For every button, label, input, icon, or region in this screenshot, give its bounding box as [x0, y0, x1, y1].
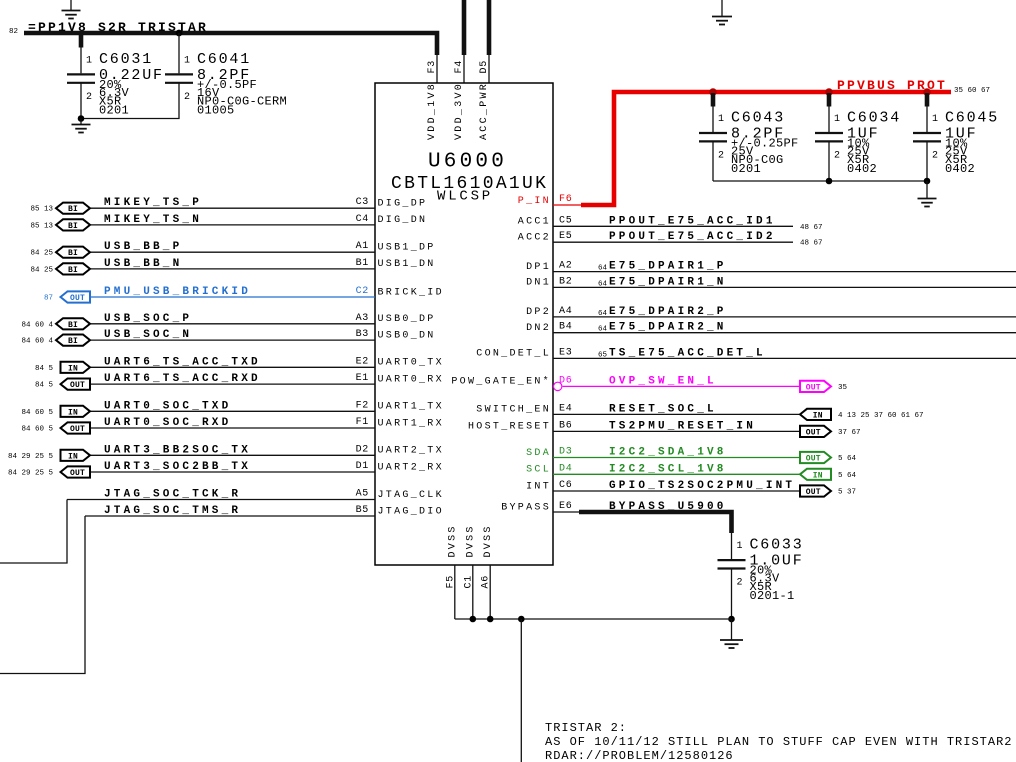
wire C6043 top [712, 105, 714, 133]
node PMU_USB_BRICKID (pin C2) [44, 286, 444, 303]
port arrow USB_SOC_N [56, 335, 90, 347]
capacitor C6045 [913, 110, 999, 177]
svg-text:1: 1 [86, 55, 93, 66]
svg-text:37 67: 37 67 [838, 429, 861, 437]
svg-text:C2: C2 [356, 286, 369, 297]
port arrow USB_SOC_P [56, 318, 90, 330]
svg-text:UART6_TS_ACC_TXD: UART6_TS_ACC_TXD [104, 356, 261, 368]
svg-text:1: 1 [932, 114, 939, 125]
port arrow GPIO_TS2SOC2PMU_INT [800, 485, 831, 497]
capacitor C6034 stub (thick) [827, 93, 832, 107]
svg-text:1: 1 [737, 541, 744, 552]
svg-text:SDA: SDA [526, 448, 551, 459]
node UART6_TS_ACC_RXD (pin E1) [35, 373, 444, 390]
IC U6000 (CBTL1610A1UK) [375, 83, 553, 565]
svg-text:F2: F2 [356, 400, 369, 411]
svg-text:E75_DPAIR2_N: E75_DPAIR2_N [609, 322, 727, 334]
svg-text:1: 1 [718, 114, 725, 125]
svg-text:U6000: U6000 [428, 151, 507, 174]
capacitor C6043 stub (thick) [711, 93, 716, 107]
svg-text:64: 64 [598, 310, 608, 318]
svg-text:D3: D3 [559, 447, 572, 458]
junction C1 ground [470, 616, 477, 623]
svg-text:UART1_RX: UART1_RX [378, 418, 444, 429]
svg-text:USB1_DN: USB1_DN [378, 259, 436, 270]
wire C6045 bottom [926, 141, 928, 181]
svg-text:C5: C5 [559, 215, 572, 226]
svg-text:BI: BI [68, 266, 78, 275]
svg-text:IN: IN [68, 364, 78, 373]
svg-text:0402: 0402 [847, 162, 877, 176]
node USB_BB_N (pin B1) [30, 258, 435, 275]
svg-text:OUT: OUT [70, 294, 85, 303]
svg-text:84 60 4: 84 60 4 [21, 338, 53, 346]
svg-text:DVSS: DVSS [448, 524, 459, 557]
svg-text:UART2_TX: UART2_TX [378, 446, 444, 457]
svg-text:MIKEY_TS_N: MIKEY_TS_N [104, 214, 202, 226]
wire ground to off-page bottom [520, 619, 522, 762]
svg-text:64: 64 [598, 280, 608, 288]
port arrow I2C2_SDA_1V8 [800, 452, 831, 464]
svg-text:A6: A6 [481, 575, 492, 588]
svg-text:A5: A5 [356, 489, 369, 500]
svg-text:84 5: 84 5 [35, 382, 54, 390]
svg-text:C4: C4 [356, 214, 369, 225]
ground (top left) [62, 0, 81, 19]
svg-text:BI: BI [68, 249, 78, 258]
junction off-page ground [518, 616, 525, 623]
svg-text:USB_BB_P: USB_BB_P [104, 241, 182, 253]
svg-text:2: 2 [86, 92, 93, 103]
node USB_SOC_N (pin B3) [21, 329, 435, 346]
svg-text:IN: IN [68, 408, 78, 417]
node PPOUT_E75_ACC_ID1 (pin C5) [518, 215, 823, 232]
pin F5 stub [454, 565, 456, 619]
svg-text:CON_DET_L: CON_DET_L [476, 349, 551, 360]
svg-text:VDD_3V0: VDD_3V0 [454, 82, 465, 140]
svg-text:A2: A2 [559, 261, 572, 272]
node BYPASS_U5900 (pin E6) [501, 501, 726, 513]
svg-text:INT: INT [526, 481, 551, 492]
svg-text:USB0_DP: USB0_DP [378, 314, 436, 325]
svg-text:RDAR://PROBLEM/12580126: RDAR://PROBLEM/12580126 [545, 749, 734, 762]
svg-text:DN1: DN1 [526, 278, 551, 289]
svg-text:ACC2: ACC2 [518, 233, 551, 244]
svg-text:01005: 01005 [197, 103, 235, 117]
svg-text:E1: E1 [356, 373, 369, 384]
svg-text:F3: F3 [427, 60, 438, 73]
svg-text:BI: BI [68, 222, 78, 231]
svg-text:E6: E6 [559, 501, 572, 512]
port arrow TS2PMU_RESET_IN [800, 426, 831, 438]
svg-text:MIKEY_TS_P: MIKEY_TS_P [104, 197, 202, 209]
svg-text:DN2: DN2 [526, 323, 551, 334]
wire JTAG_SOC_TMS_R to left edge [0, 516, 85, 674]
svg-text:D5: D5 [479, 60, 490, 73]
port arrow OVP_SW_EN_L [800, 381, 831, 393]
svg-text:1: 1 [184, 55, 191, 66]
capacitor C6043 [699, 110, 799, 177]
wire C6031 top [80, 46, 82, 73]
svg-text:E5: E5 [559, 231, 572, 242]
junction C6033 ground [728, 616, 735, 623]
svg-text:A4: A4 [559, 306, 572, 317]
svg-text:OUT: OUT [806, 428, 821, 437]
port arrow UART0_SOC_TXD [61, 406, 91, 418]
node TS_E75_ACC_DET_L (pin E3) [476, 347, 1016, 359]
svg-text:C6: C6 [559, 480, 572, 491]
node I2C2_SDA_1V8 (pin D3) [526, 447, 856, 464]
svg-text:A3: A3 [356, 313, 369, 324]
node I2C2_SCL_1V8 (pin D4) [526, 463, 856, 480]
svg-text:2: 2 [834, 151, 841, 162]
svg-text:85 13: 85 13 [30, 222, 53, 230]
net label PPVBUS_PROT [837, 78, 990, 95]
svg-text:OUT: OUT [806, 383, 821, 392]
svg-text:OUT: OUT [70, 425, 85, 434]
svg-text:JTAG_SOC_TCK_R: JTAG_SOC_TCK_R [104, 489, 241, 501]
svg-text:B2: B2 [559, 276, 572, 287]
svg-text:D2: D2 [356, 444, 369, 455]
node UART0_SOC_RXD (pin F1) [21, 417, 443, 434]
junction on PPVBUS at C6045 [923, 88, 931, 96]
node UART3_BB2SOC_TX (pin D2) [8, 444, 444, 461]
svg-text:84 60 4: 84 60 4 [21, 321, 53, 329]
svg-text:WLCSP: WLCSP [437, 189, 493, 205]
svg-text:UART3_BB2SOC_TX: UART3_BB2SOC_TX [104, 444, 251, 456]
svg-text:64: 64 [598, 265, 608, 273]
node MIKEY_TS_P (pin C3) [30, 197, 427, 214]
port arrow MIKEY_TS_P [56, 203, 90, 215]
svg-text:B4: B4 [559, 322, 572, 333]
svg-text:F1: F1 [356, 417, 369, 428]
svg-text:35: 35 [838, 384, 848, 392]
node E75_DPAIR2_P (pin A4) [526, 306, 1016, 318]
pin D5 stub [488, 50, 490, 84]
wire caps ground bus [713, 180, 927, 182]
svg-text:DIG_DP: DIG_DP [378, 199, 428, 210]
svg-text:84 5: 84 5 [35, 365, 54, 373]
junction at C6031/C6041 ground node [78, 115, 85, 122]
wire JTAG_SOC_TCK_R to left edge [0, 500, 67, 564]
svg-text:84 25: 84 25 [30, 250, 53, 258]
node UART0_SOC_TXD (pin F2) [21, 400, 443, 417]
svg-text:2: 2 [718, 151, 725, 162]
port arrow UART3_SOC2BB_TX [61, 466, 91, 478]
port arrow UART6_TS_ACC_RXD [61, 379, 91, 391]
svg-text:SWITCH_EN: SWITCH_EN [476, 405, 551, 416]
svg-text:82: 82 [9, 28, 18, 36]
wire VDD_3V0 (thick, off-page top) [462, 0, 467, 55]
svg-text:PPOUT_E75_ACC_ID2: PPOUT_E75_ACC_ID2 [609, 231, 776, 243]
ground (below PPVBUS caps) [918, 181, 937, 207]
svg-text:84 60 5: 84 60 5 [21, 426, 53, 434]
capacitor C6045 stub (thick) [925, 93, 930, 107]
svg-text:0402: 0402 [945, 162, 975, 176]
capacitor C6034 [815, 110, 901, 177]
node E75_DPAIR1_P (pin A2) [526, 261, 1016, 273]
wire C6034 top [828, 105, 830, 133]
svg-text:2: 2 [932, 151, 939, 162]
node E75_DPAIR2_N (pin B4) [526, 322, 1016, 334]
node PPOUT_E75_ACC_ID2 (pin E5) [518, 231, 823, 248]
wire PP1V8 bus (thick) [24, 33, 437, 55]
svg-text:C6031: C6031 [99, 51, 153, 68]
svg-text:E2: E2 [356, 356, 369, 367]
junction C6045 ground [924, 178, 931, 185]
node JTAG_SOC_TCK_R (pin A5) [67, 489, 444, 501]
pin A6 stub [489, 565, 491, 619]
wire ACC_PWR (thick, off-page top) [487, 0, 492, 55]
junction A6 ground [487, 616, 494, 623]
svg-text:BRICK_ID: BRICK_ID [378, 287, 444, 298]
port arrow UART3_BB2SOC_TX [61, 450, 91, 462]
junction on PP1V8 bus at C6041 branch [176, 30, 183, 37]
svg-text:1: 1 [834, 114, 841, 125]
svg-text:DP1: DP1 [526, 262, 551, 273]
wire BYPASS_U5900 (thick) [579, 512, 732, 533]
svg-text:DIG_DN: DIG_DN [378, 215, 428, 226]
svg-text:UART0_TX: UART0_TX [378, 358, 444, 369]
svg-text:UART0_SOC_RXD: UART0_SOC_RXD [104, 417, 231, 429]
svg-text:BI: BI [68, 321, 78, 330]
svg-text:IN: IN [813, 411, 823, 420]
wire C6041 bottom to ground node [81, 83, 179, 119]
svg-text:A1: A1 [356, 241, 369, 252]
svg-text:OVP_SW_EN_L: OVP_SW_EN_L [609, 375, 717, 387]
node OVP_SW_EN_L (pin D6, magenta) [451, 375, 847, 392]
svg-text:TS_E75_ACC_DET_L: TS_E75_ACC_DET_L [609, 347, 766, 359]
node USB_SOC_P (pin A3) [21, 313, 435, 330]
port arrow USB_BB_P [56, 247, 90, 259]
svg-text:4 13 25 37 60 61 67: 4 13 25 37 60 61 67 [838, 412, 924, 420]
note TRISTAR 2 [545, 721, 1012, 762]
svg-text:84 60 5: 84 60 5 [21, 409, 53, 417]
svg-text:5 37: 5 37 [838, 489, 856, 497]
svg-text:ACC1: ACC1 [518, 217, 551, 228]
wire C6041 branch [178, 33, 180, 73]
node TS2PMU_RESET_IN (pin B6) [468, 420, 861, 437]
svg-text:USB_BB_N: USB_BB_N [104, 258, 182, 270]
svg-text:F5: F5 [445, 575, 456, 588]
svg-text:USB_SOC_N: USB_SOC_N [104, 329, 192, 341]
svg-text:B6: B6 [559, 420, 572, 431]
svg-text:JTAG_DIO: JTAG_DIO [378, 506, 444, 517]
svg-text:DVSS: DVSS [466, 524, 477, 557]
svg-text:UART3_SOC2BB_TX: UART3_SOC2BB_TX [104, 461, 251, 473]
svg-text:35 60 67: 35 60 67 [954, 87, 990, 95]
svg-text:IN: IN [813, 471, 823, 480]
svg-text:2: 2 [737, 578, 744, 589]
svg-text:0201: 0201 [99, 103, 129, 117]
svg-text:UART0_RX: UART0_RX [378, 374, 444, 385]
svg-text:D6: D6 [559, 375, 572, 386]
svg-text:BI: BI [68, 205, 78, 214]
wire C6034 bottom [828, 141, 830, 181]
svg-text:48 67: 48 67 [800, 224, 823, 232]
svg-text:DVSS: DVSS [483, 524, 494, 557]
wire PPVBUS_PROT (thick red) [581, 92, 951, 205]
svg-text:AS OF 10/11/12 STILL PLAN TO S: AS OF 10/11/12 STILL PLAN TO STUFF CAP E… [545, 735, 1012, 749]
node USB_BB_P (pin A1) [30, 241, 435, 258]
svg-text:DP2: DP2 [526, 307, 551, 318]
svg-text:C6033: C6033 [750, 537, 804, 554]
svg-text:5 64: 5 64 [838, 472, 857, 480]
svg-text:0201: 0201 [731, 162, 761, 176]
pin F4 stub [463, 50, 465, 84]
svg-text:F6: F6 [559, 194, 572, 205]
svg-text:D1: D1 [356, 461, 369, 472]
svg-text:USB1_DP: USB1_DP [378, 243, 436, 254]
svg-text:E4: E4 [559, 403, 572, 414]
svg-text:I2C2_SDA_1V8: I2C2_SDA_1V8 [609, 447, 727, 459]
wire C6031 bottom [80, 83, 82, 119]
junction on PPVBUS at C6043 [709, 88, 717, 96]
node GPIO_TS2SOC2PMU_INT (pin C6) [526, 480, 856, 497]
svg-text:OUT: OUT [70, 469, 85, 478]
svg-text:F4: F4 [454, 60, 465, 73]
svg-text:C6045: C6045 [945, 110, 999, 127]
port arrow PMU_USB_BRICKID [61, 291, 91, 303]
svg-text:E75_DPAIR2_P: E75_DPAIR2_P [609, 306, 727, 318]
svg-text:HOST_RESET: HOST_RESET [468, 422, 551, 433]
svg-text:2: 2 [184, 92, 191, 103]
svg-text:POW_GATE_EN*: POW_GATE_EN* [451, 376, 551, 388]
svg-text:5 64: 5 64 [838, 455, 857, 463]
capacitor C6031 stub (thick) [79, 33, 84, 48]
svg-text:GPIO_TS2SOC2PMU_INT: GPIO_TS2SOC2PMU_INT [609, 480, 795, 492]
svg-text:D4: D4 [559, 463, 572, 474]
wire C6043 bottom [712, 141, 714, 181]
svg-text:PPOUT_E75_ACC_ID1: PPOUT_E75_ACC_ID1 [609, 215, 776, 227]
svg-text:ACC_PWR: ACC_PWR [479, 82, 490, 140]
svg-text:E75_DPAIR1_N: E75_DPAIR1_N [609, 276, 727, 288]
svg-text:84 25: 84 25 [30, 266, 53, 274]
ground (top middle) [712, 0, 732, 25]
svg-text:TRISTAR 2:: TRISTAR 2: [545, 721, 627, 735]
node MIKEY_TS_N (pin C4) [30, 214, 427, 231]
svg-text:OUT: OUT [806, 455, 821, 464]
svg-text:C3: C3 [356, 197, 369, 208]
svg-text:C6034: C6034 [847, 110, 901, 127]
svg-text:B5: B5 [356, 505, 369, 516]
svg-text:87: 87 [44, 295, 53, 303]
pin C1 stub [472, 565, 474, 619]
svg-text:IN: IN [68, 452, 78, 461]
svg-text:C1: C1 [463, 575, 474, 588]
svg-text:84 29 25 5: 84 29 25 5 [8, 453, 54, 461]
port arrow RESET_SOC_L [800, 409, 831, 421]
svg-text:JTAG_SOC_TMS_R: JTAG_SOC_TMS_R [104, 505, 241, 517]
svg-text:BYPASS: BYPASS [501, 502, 551, 513]
node E75_DPAIR1_N (pin B2) [526, 276, 1016, 288]
capacitor C6041 [165, 51, 287, 118]
port arrow MIKEY_TS_N [56, 219, 90, 231]
junction C6034 ground [826, 178, 833, 185]
svg-text:85 13: 85 13 [30, 206, 53, 214]
junction on PPVBUS at C6034 [825, 88, 833, 96]
svg-text:UART1_TX: UART1_TX [378, 402, 444, 413]
svg-text:C6041: C6041 [197, 51, 251, 68]
wire C6045 top [926, 105, 928, 133]
node UART3_SOC2BB_TX (pin D1) [8, 461, 444, 478]
svg-text:BI: BI [68, 337, 78, 346]
svg-text:P_IN: P_IN [518, 196, 551, 207]
svg-text:0201-1: 0201-1 [750, 589, 795, 603]
svg-text:UART2_RX: UART2_RX [378, 462, 444, 473]
svg-text:TS2PMU_RESET_IN: TS2PMU_RESET_IN [609, 420, 756, 432]
ground (below C6031) [72, 119, 91, 133]
svg-text:UART0_SOC_TXD: UART0_SOC_TXD [104, 400, 231, 412]
svg-text:USB0_DN: USB0_DN [378, 330, 436, 341]
svg-text:RESET_SOC_L: RESET_SOC_L [609, 403, 717, 415]
pin F3 stub [436, 50, 438, 84]
port arrow I2C2_SCL_1V8 [800, 469, 831, 481]
svg-text:65: 65 [598, 351, 608, 359]
svg-text:C6043: C6043 [731, 110, 785, 127]
svg-text:B1: B1 [356, 258, 369, 269]
svg-text:OUT: OUT [70, 381, 85, 390]
svg-text:84 29 25 5: 84 29 25 5 [8, 470, 54, 478]
svg-text:I2C2_SCL_1V8: I2C2_SCL_1V8 [609, 463, 727, 475]
wire C6033 bottom [731, 569, 733, 620]
node RESET_SOC_L (pin E4) [476, 403, 923, 420]
port arrow UART6_TS_ACC_TXD [61, 362, 91, 374]
svg-text:JTAG_CLK: JTAG_CLK [378, 490, 444, 501]
svg-text:OUT: OUT [806, 488, 821, 497]
port arrow UART0_SOC_RXD [61, 422, 91, 434]
svg-text:64: 64 [598, 326, 608, 334]
port arrow USB_BB_N [56, 263, 90, 275]
pin P_IN F6 (red) [518, 194, 581, 207]
node JTAG_SOC_TMS_R (pin B5) [85, 505, 444, 517]
svg-text:USB_SOC_P: USB_SOC_P [104, 313, 192, 325]
svg-text:48 67: 48 67 [800, 240, 823, 248]
svg-text:VDD_1V8: VDD_1V8 [427, 82, 438, 140]
node UART6_TS_ACC_TXD (pin E2) [35, 356, 444, 373]
svg-text:SCL: SCL [526, 465, 551, 476]
wire DVSS ground bus [455, 618, 732, 620]
svg-text:UART6_TS_ACC_RXD: UART6_TS_ACC_RXD [104, 373, 261, 385]
ground (below C6033) [720, 619, 743, 648]
svg-text:E3: E3 [559, 347, 572, 358]
svg-text:E75_DPAIR1_P: E75_DPAIR1_P [609, 261, 727, 273]
svg-text:B3: B3 [356, 329, 369, 340]
capacitor C6033 [718, 537, 804, 604]
power net label =PP1V8_S2R_TRISTAR [9, 20, 208, 36]
capacitor C6031 [67, 51, 164, 118]
wire C6033 top [731, 531, 733, 560]
svg-text:PMU_USB_BRICKID: PMU_USB_BRICKID [104, 286, 251, 298]
